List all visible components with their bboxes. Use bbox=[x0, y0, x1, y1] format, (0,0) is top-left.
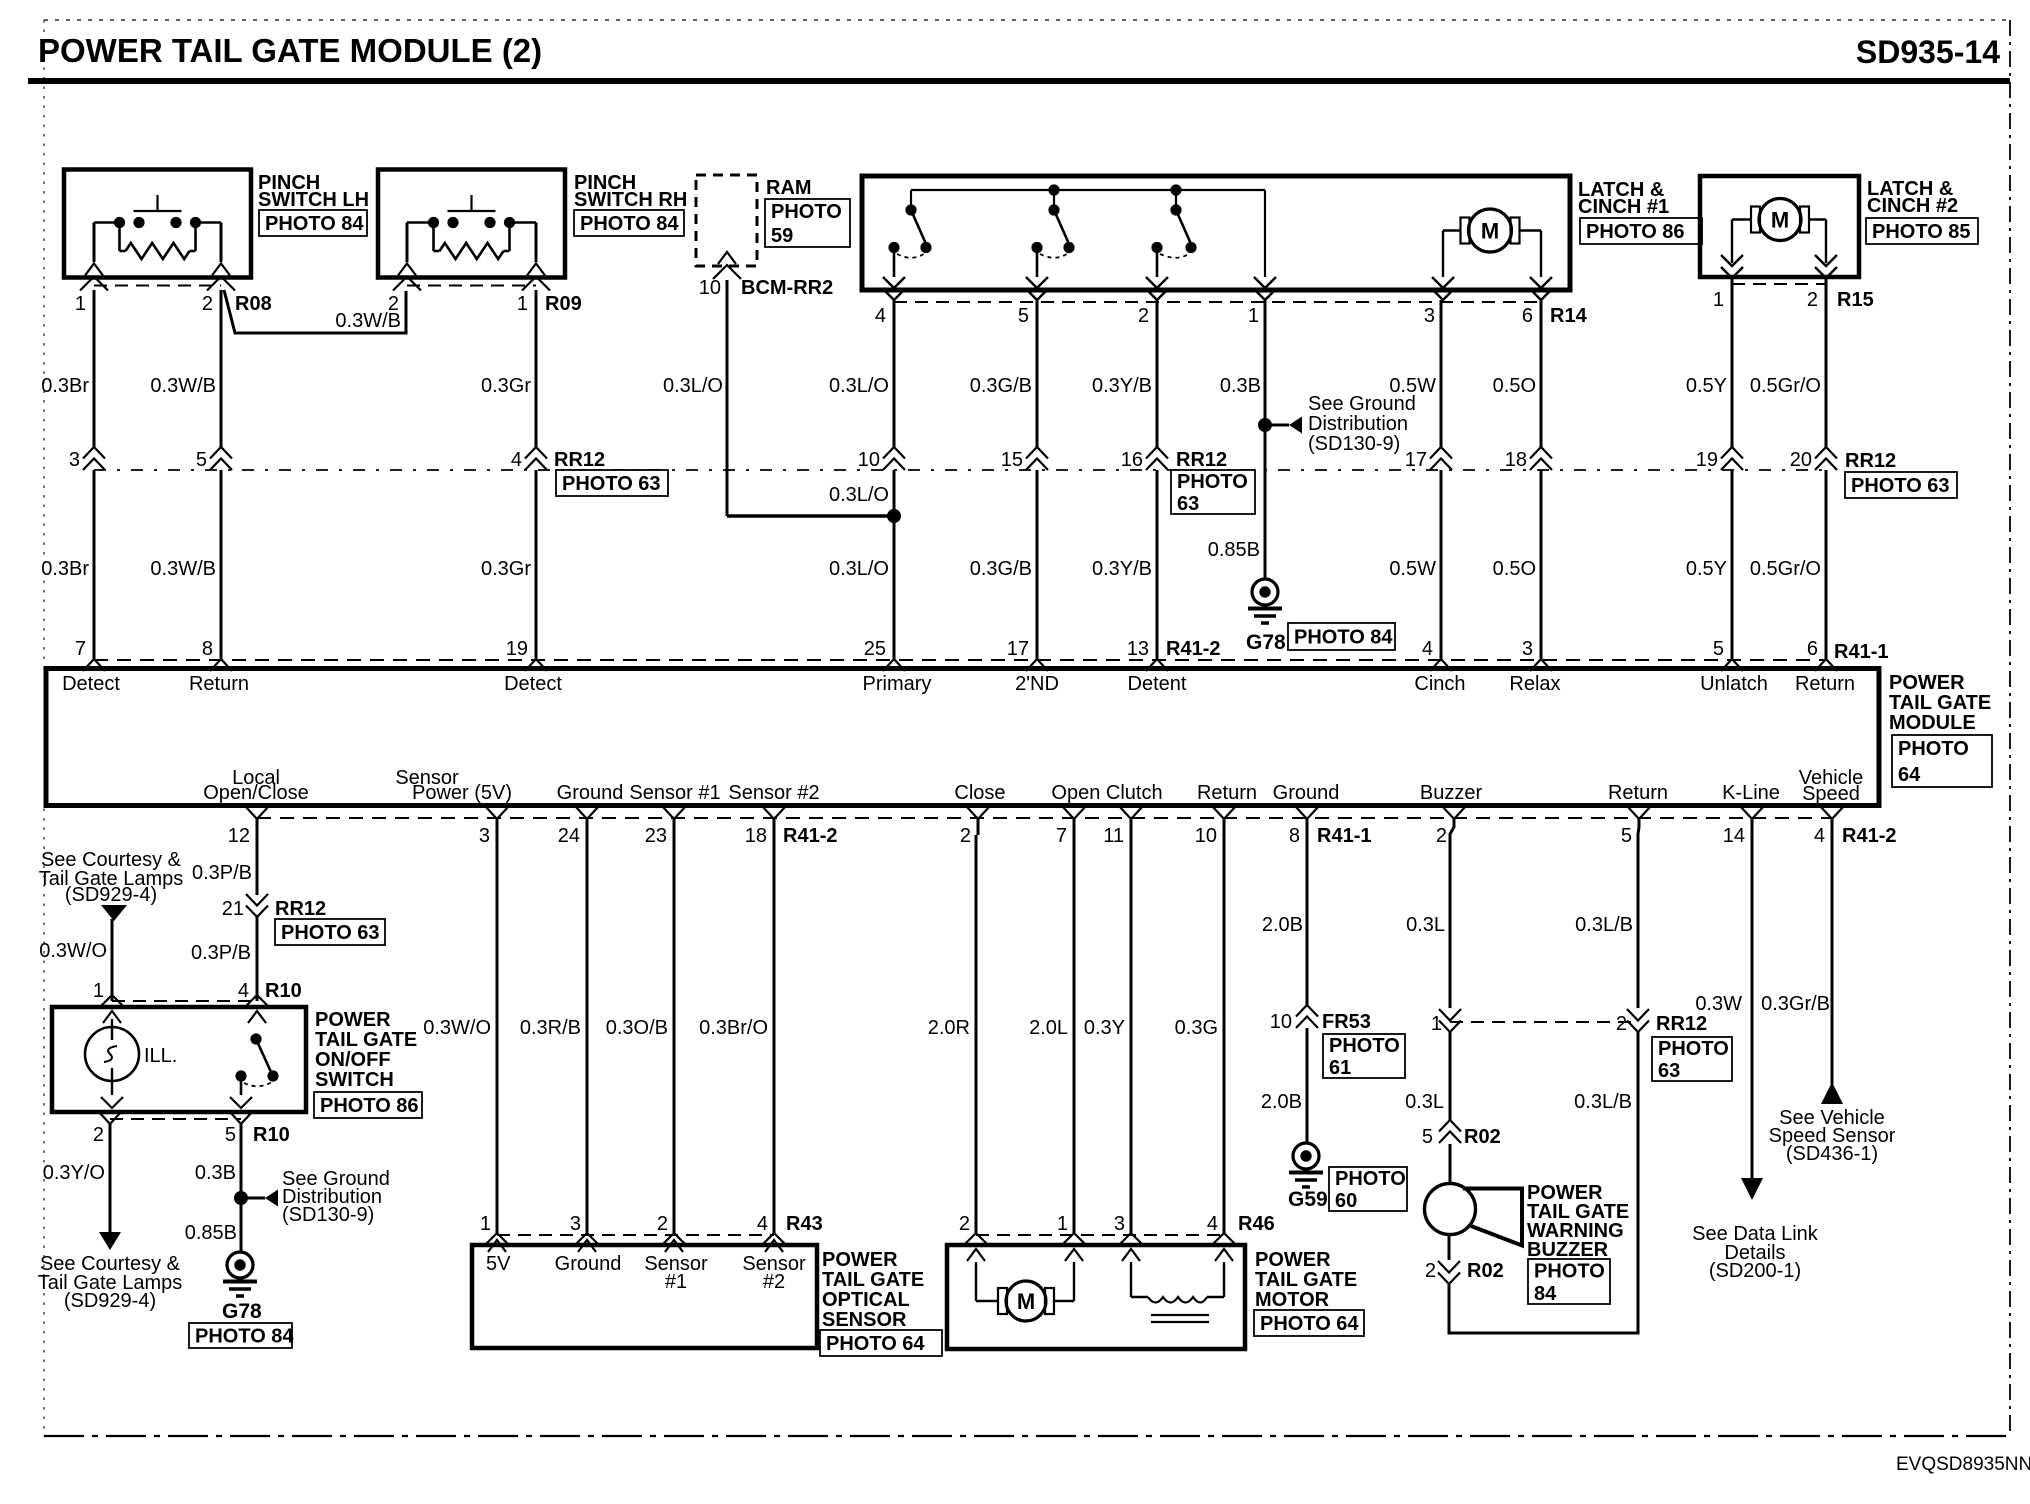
connector FR53 pin 10 chevron bbox=[1270, 1005, 1371, 1033]
svg-text:0.3O/B: 0.3O/B bbox=[606, 1017, 668, 1039]
svg-text:(SD130-9): (SD130-9) bbox=[1308, 433, 1400, 455]
svg-text:PHOTO 85: PHOTO 85 bbox=[1872, 221, 1971, 243]
latch switch (detent) bbox=[1151, 204, 1196, 277]
svg-text:20: 20 bbox=[1790, 449, 1812, 471]
latch & cinch #1 PHOTO 86 box bbox=[1580, 218, 1702, 244]
wire 0.3Y module pin 11 to tail gate motor pin 3 bbox=[1084, 819, 1144, 1261]
svg-text:60: 60 bbox=[1335, 1190, 1357, 1212]
svg-text:R46: R46 bbox=[1238, 1213, 1275, 1235]
svg-text:2.0B: 2.0B bbox=[1262, 914, 1303, 936]
svg-text:0.3Br: 0.3Br bbox=[41, 558, 89, 580]
svg-text:SWITCH LH: SWITCH LH bbox=[258, 189, 369, 211]
see ground distribution reference (top) bbox=[1258, 393, 1416, 455]
svg-text:5: 5 bbox=[1713, 638, 1724, 660]
svg-text:4: 4 bbox=[238, 980, 249, 1002]
svg-text:8: 8 bbox=[1289, 825, 1300, 847]
svg-text:(SD929-4): (SD929-4) bbox=[65, 884, 157, 906]
svg-text:64: 64 bbox=[1898, 764, 1921, 786]
svg-text:0.3L/O: 0.3L/O bbox=[829, 375, 889, 397]
svg-text:Sensor #2: Sensor #2 bbox=[728, 782, 819, 804]
svg-text:4: 4 bbox=[875, 305, 886, 327]
svg-text:FR53: FR53 bbox=[1322, 1011, 1371, 1033]
connector RR12 pin 5 chevron bbox=[196, 447, 232, 471]
svg-text:21: 21 bbox=[222, 898, 244, 920]
svg-text:3: 3 bbox=[69, 449, 80, 471]
svg-text:2.0L: 2.0L bbox=[1029, 1017, 1068, 1039]
connector R09 (pins 2,1) bbox=[388, 286, 582, 316]
on/off switch PHOTO 86 box bbox=[314, 1092, 422, 1118]
svg-text:6: 6 bbox=[1522, 305, 1533, 327]
wire 0.5Gr/O from top component to module pin 6 bbox=[1750, 277, 1826, 659]
svg-text:POWER: POWER bbox=[822, 1249, 898, 1271]
wire 0.3O/B module pin 23 to optical sensor pin 2 bbox=[606, 819, 687, 1252]
svg-text:1: 1 bbox=[1057, 1213, 1068, 1235]
svg-text:0.3L/O: 0.3L/O bbox=[829, 558, 889, 580]
svg-text:0.3B: 0.3B bbox=[1220, 375, 1261, 397]
svg-text:Detect: Detect bbox=[504, 673, 562, 695]
wire 0.5W from top component to module pin 4 bbox=[1389, 300, 1441, 659]
power tail gate on/off switch box bbox=[52, 1007, 306, 1112]
svg-text:0.5Y: 0.5Y bbox=[1686, 558, 1727, 580]
svg-text:25: 25 bbox=[864, 638, 886, 660]
svg-text:3: 3 bbox=[570, 1213, 581, 1235]
svg-text:11: 11 bbox=[1103, 825, 1124, 847]
connector RR12 label (left) bbox=[554, 449, 605, 471]
connector R02 pin 2 chevron bbox=[1425, 1260, 1504, 1284]
FR53 PHOTO 61 box bbox=[1323, 1034, 1405, 1079]
svg-text:0.3L/O: 0.3L/O bbox=[663, 375, 723, 397]
svg-text:G59: G59 bbox=[1288, 1188, 1328, 1211]
svg-text:0.3R/B: 0.3R/B bbox=[520, 1017, 581, 1039]
module pin 5 entry bbox=[1713, 638, 1743, 671]
svg-text:0.3G/B: 0.3G/B bbox=[970, 375, 1032, 397]
svg-text:PHOTO: PHOTO bbox=[1335, 1168, 1406, 1190]
svg-text:0.5O: 0.5O bbox=[1493, 558, 1536, 580]
svg-text:0.3Y/B: 0.3Y/B bbox=[1092, 558, 1152, 580]
wire 0.3G/B from top component to module pin 17 bbox=[970, 300, 1037, 659]
svg-text:PHOTO 84: PHOTO 84 bbox=[580, 213, 679, 235]
svg-text:R10: R10 bbox=[265, 980, 302, 1002]
svg-text:R10: R10 bbox=[253, 1124, 290, 1146]
svg-text:3: 3 bbox=[479, 825, 490, 847]
power tail gate module box bbox=[46, 669, 1879, 806]
svg-text:0.5W: 0.5W bbox=[1389, 558, 1436, 580]
svg-text:BUZZER: BUZZER bbox=[1527, 1239, 1609, 1261]
svg-text:PHOTO: PHOTO bbox=[1898, 738, 1969, 760]
svg-text:MODULE: MODULE bbox=[1889, 712, 1976, 734]
svg-text:2: 2 bbox=[1436, 825, 1447, 847]
see courtesy & tail gate lamps reference (top) bbox=[39, 849, 184, 921]
svg-text:PHOTO 64: PHOTO 64 bbox=[826, 1333, 925, 1355]
ground G59 bbox=[1288, 1143, 1328, 1211]
svg-text:Return: Return bbox=[1197, 782, 1257, 804]
svg-text:0.5Gr/O: 0.5Gr/O bbox=[1750, 375, 1821, 397]
module internal labels (bottom row) bbox=[203, 767, 1863, 805]
module pin 6 entry bbox=[1807, 638, 1837, 671]
svg-text:7: 7 bbox=[1056, 825, 1067, 847]
connector R02 pin 5 chevron bbox=[1422, 1120, 1501, 1148]
svg-text:63: 63 bbox=[1658, 1060, 1680, 1082]
svg-text:1: 1 bbox=[517, 293, 528, 315]
wire 0.3G module pin 10 to tail gate motor pin 4 bbox=[1175, 819, 1237, 1261]
svg-text:PHOTO 63: PHOTO 63 bbox=[562, 473, 661, 495]
svg-text:0.3Y/B: 0.3Y/B bbox=[1092, 375, 1152, 397]
connector RR12 pin 2 chevron (return) bbox=[1616, 1009, 1707, 1035]
pinch switch RH pin symbols bbox=[393, 264, 550, 291]
connector R46 dashed line and label bbox=[976, 1213, 1275, 1235]
svg-text:TAIL GATE: TAIL GATE bbox=[1255, 1269, 1357, 1291]
svg-text:PHOTO 84: PHOTO 84 bbox=[265, 213, 364, 235]
warning buzzer name label bbox=[1527, 1182, 1629, 1261]
on/off switch name label bbox=[315, 1009, 417, 1091]
svg-text:1: 1 bbox=[1431, 1013, 1442, 1035]
svg-text:1: 1 bbox=[75, 293, 86, 315]
svg-text:2: 2 bbox=[202, 293, 213, 315]
optical sensor PHOTO 64 box bbox=[820, 1330, 942, 1356]
svg-text:R41-1: R41-1 bbox=[1317, 825, 1371, 847]
svg-text:0.3Br/O: 0.3Br/O bbox=[699, 1017, 768, 1039]
svg-text:4: 4 bbox=[1814, 825, 1825, 847]
svg-text:5: 5 bbox=[1018, 305, 1029, 327]
svg-text:PHOTO: PHOTO bbox=[1534, 1260, 1605, 1282]
connector R08 (pins 1,2) bbox=[75, 286, 272, 316]
svg-text:RR12: RR12 bbox=[1176, 449, 1227, 471]
svg-text:0.3Gr/B: 0.3Gr/B bbox=[1761, 993, 1830, 1015]
module pin 8 entry bbox=[202, 638, 232, 671]
svg-text:ILL.: ILL. bbox=[144, 1045, 177, 1067]
connector R15 (pins 1,2) bbox=[1713, 284, 1874, 311]
svg-text:POWER TAIL GATE MODULE (2): POWER TAIL GATE MODULE (2) bbox=[38, 32, 542, 69]
wire 0.3Y/O to courtesy lamps bbox=[43, 1124, 121, 1250]
svg-text:13: 13 bbox=[1127, 638, 1149, 660]
latch & cinch #2 box bbox=[1700, 176, 1859, 277]
svg-text:0.5Gr/O: 0.5Gr/O bbox=[1750, 558, 1821, 580]
connector RR12 pin 21 chevron bbox=[222, 894, 326, 920]
svg-text:3: 3 bbox=[1424, 305, 1435, 327]
svg-text:0.3W/B: 0.3W/B bbox=[150, 375, 216, 397]
link wire LH pin2 to RH pin2 (0.3W/B) bbox=[224, 290, 406, 333]
svg-text:0.3Br: 0.3Br bbox=[41, 375, 89, 397]
module pin 4 entry bbox=[1422, 638, 1452, 671]
latch & cinch #1 internal bus wire bbox=[911, 184, 1265, 277]
connector pin 1 chevron (buzzer side) bbox=[1431, 1009, 1461, 1035]
connector R10 pins 2,5 bbox=[93, 1112, 290, 1146]
see data link details reference bbox=[1692, 1223, 1819, 1282]
svg-text:(SD929-4): (SD929-4) bbox=[64, 1290, 156, 1312]
svg-text:ON/OFF: ON/OFF bbox=[315, 1049, 391, 1071]
pinch switch LH PHOTO 84 box bbox=[259, 210, 367, 236]
svg-text:84: 84 bbox=[1534, 1283, 1557, 1305]
svg-text:R41-2: R41-2 bbox=[783, 825, 837, 847]
svg-text:0.3G/B: 0.3G/B bbox=[970, 558, 1032, 580]
svg-text:PHOTO: PHOTO bbox=[1329, 1035, 1400, 1057]
svg-text:MOTOR: MOTOR bbox=[1255, 1289, 1330, 1311]
wire 0.3Y/B from top component to module pin 13 bbox=[1092, 300, 1157, 659]
svg-text:R41-2: R41-2 bbox=[1166, 638, 1220, 660]
svg-text:R43: R43 bbox=[786, 1213, 823, 1235]
svg-text:1: 1 bbox=[93, 980, 104, 1002]
svg-text:Return: Return bbox=[1608, 782, 1668, 804]
RR12 PHOTO 63 box (pin 21) bbox=[275, 919, 385, 945]
svg-text:59: 59 bbox=[771, 225, 793, 247]
svg-text:6: 6 bbox=[1807, 638, 1818, 660]
svg-text:Buzzer: Buzzer bbox=[1420, 782, 1483, 804]
module pin 25 entry bbox=[864, 638, 905, 671]
svg-text:Distribution: Distribution bbox=[1308, 413, 1408, 435]
module name label POWER TAIL GATE MODULE bbox=[1889, 672, 1991, 734]
svg-text:3: 3 bbox=[1114, 1213, 1125, 1235]
svg-text:0.3W/O: 0.3W/O bbox=[423, 1017, 491, 1039]
svg-text:M: M bbox=[1481, 219, 1499, 244]
wire 0.3W/B from top component to module pin 8 bbox=[150, 290, 221, 659]
svg-text:R41-1: R41-1 bbox=[1834, 641, 1888, 663]
wire 0.3L/O segment below junction (label) bbox=[829, 484, 889, 580]
svg-text:19: 19 bbox=[506, 638, 528, 660]
connector RR12 pin 16 chevron bbox=[1121, 447, 1168, 471]
wire 0.3Gr from top component to module pin 19 bbox=[481, 290, 536, 659]
svg-text:1: 1 bbox=[1713, 289, 1724, 311]
sheet number SD935-14 bbox=[1856, 34, 2000, 70]
module connector labels R41-2 / R41-1 (top row) bbox=[1166, 638, 1888, 663]
svg-text:RR12: RR12 bbox=[1656, 1013, 1707, 1035]
module pin 19 entry bbox=[506, 638, 547, 671]
ground G78 (bottom) bbox=[222, 1252, 262, 1323]
svg-text:0.3B: 0.3B bbox=[195, 1162, 236, 1184]
RAM PHOTO 59 box bbox=[765, 199, 850, 247]
svg-text:TAIL GATE: TAIL GATE bbox=[315, 1029, 417, 1051]
title separator rule bbox=[28, 78, 2010, 84]
connector RR12 label (right) bbox=[1845, 450, 1896, 472]
tail gate motor PHOTO 64 box bbox=[1254, 1310, 1364, 1336]
latch & cinch #2 PHOTO 85 box bbox=[1866, 218, 1978, 244]
svg-text:Unlatch: Unlatch bbox=[1700, 673, 1768, 695]
wire 0.3W module pin 14 K-line bbox=[1695, 819, 1763, 1200]
wire 2.0R module pin 2 to tail gate motor pin 2 bbox=[928, 819, 989, 1261]
latch & cinch #1 motor M bbox=[1443, 209, 1541, 277]
svg-text:2.0B: 2.0B bbox=[1261, 1091, 1302, 1113]
svg-text:Sensor #1: Sensor #1 bbox=[629, 782, 720, 804]
svg-text:0.3Gr: 0.3Gr bbox=[481, 558, 531, 580]
pinch switch LH pin symbols bbox=[80, 264, 235, 291]
connector RR12 label (middle) bbox=[1176, 449, 1227, 471]
svg-text:61: 61 bbox=[1329, 1057, 1351, 1079]
svg-text:#1: #1 bbox=[665, 1271, 687, 1293]
svg-text:18: 18 bbox=[1505, 449, 1527, 471]
svg-text:10: 10 bbox=[1195, 825, 1217, 847]
RAM pin 10 BCM-RR2 bbox=[699, 252, 833, 299]
on/off switch contacts bbox=[230, 1033, 279, 1108]
buzzer return loop wire bbox=[1449, 1032, 1638, 1333]
svg-text:23: 23 bbox=[645, 825, 667, 847]
connector R43 dashed line and label bbox=[497, 1213, 823, 1235]
power tail gate optical sensor box bbox=[472, 1245, 817, 1348]
svg-text:4: 4 bbox=[511, 449, 522, 471]
power tail gate motor box bbox=[947, 1245, 1245, 1349]
svg-text:5: 5 bbox=[225, 1124, 236, 1146]
svg-text:16: 16 bbox=[1121, 449, 1143, 471]
svg-text:PHOTO: PHOTO bbox=[771, 201, 842, 223]
svg-text:TAIL GATE: TAIL GATE bbox=[822, 1269, 924, 1291]
svg-text:POWER: POWER bbox=[1255, 1249, 1331, 1271]
svg-text:R09: R09 bbox=[545, 293, 582, 315]
latch switch (primary) bbox=[888, 204, 931, 277]
wire 0.3L/O from top component to module pin 25 bbox=[829, 300, 894, 659]
G59 PHOTO 60 box bbox=[1329, 1167, 1407, 1212]
svg-text:5V: 5V bbox=[486, 1253, 511, 1275]
svg-text:19: 19 bbox=[1696, 449, 1718, 471]
wire 2.0B module pin 8 to ground G59 bbox=[1261, 819, 1307, 1143]
svg-text:5: 5 bbox=[1422, 1126, 1433, 1148]
svg-text:2'ND: 2'ND bbox=[1015, 673, 1059, 695]
optical sensor name label bbox=[822, 1249, 924, 1331]
connector RR12 pin 15 chevron bbox=[1001, 447, 1048, 471]
svg-text:CINCH #2: CINCH #2 bbox=[1867, 195, 1958, 217]
svg-text:SWITCH: SWITCH bbox=[315, 1069, 394, 1091]
svg-text:2: 2 bbox=[1425, 1260, 1436, 1282]
module pin 13 entry bbox=[1127, 638, 1168, 671]
svg-text:2: 2 bbox=[1807, 289, 1818, 311]
svg-text:0.3G: 0.3G bbox=[1175, 1017, 1218, 1039]
svg-text:PHOTO: PHOTO bbox=[1177, 471, 1248, 493]
svg-text:(SD200-1): (SD200-1) bbox=[1709, 1260, 1801, 1282]
connector RR12 pin 18 chevron bbox=[1505, 447, 1552, 471]
svg-text:PHOTO 64: PHOTO 64 bbox=[1260, 1313, 1359, 1335]
svg-text:Relax: Relax bbox=[1509, 673, 1560, 695]
svg-text:Detent: Detent bbox=[1128, 673, 1187, 695]
tail gate motor M symbol bbox=[976, 1262, 1074, 1321]
module internal labels (top row) bbox=[62, 673, 1855, 695]
pinch switch LH push-button and resistor symbol bbox=[94, 195, 221, 262]
svg-text:PHOTO: PHOTO bbox=[1658, 1038, 1729, 1060]
svg-text:R14: R14 bbox=[1550, 305, 1588, 327]
svg-text:8: 8 bbox=[202, 638, 213, 660]
connector RR12 pin 10 chevron bbox=[858, 447, 905, 471]
module pin dashed line (bottom row) bbox=[257, 817, 1832, 819]
svg-text:CINCH #1: CINCH #1 bbox=[1578, 196, 1669, 218]
svg-text:Open Clutch: Open Clutch bbox=[1051, 782, 1162, 804]
connector R10 pin 4 bbox=[112, 980, 302, 1023]
svg-text:Power (5V): Power (5V) bbox=[412, 782, 512, 804]
G78 PHOTO 84 box (bottom) bbox=[189, 1323, 294, 1348]
svg-text:SENSOR: SENSOR bbox=[822, 1309, 907, 1331]
latch & cinch #1 pin arrows bbox=[883, 277, 1552, 300]
pinch switch LH name label bbox=[258, 172, 369, 211]
svg-text:OPTICAL: OPTICAL bbox=[822, 1289, 910, 1311]
svg-text:0.3P/B: 0.3P/B bbox=[191, 942, 251, 964]
svg-text:RAM: RAM bbox=[766, 177, 812, 199]
svg-text:Close: Close bbox=[954, 782, 1005, 804]
pinch switch RH name label bbox=[574, 172, 687, 211]
svg-text:PHOTO 84: PHOTO 84 bbox=[195, 1326, 294, 1348]
wire 0.5Y from top component to module pin 5 bbox=[1686, 277, 1732, 659]
svg-text:Ground: Ground bbox=[555, 1253, 622, 1275]
wire 0.3R/B module pin 24 to optical sensor pin 3 bbox=[520, 819, 600, 1252]
svg-text:2: 2 bbox=[959, 1213, 970, 1235]
svg-text:R41-2: R41-2 bbox=[1842, 825, 1896, 847]
svg-text:0.3W/B: 0.3W/B bbox=[150, 558, 216, 580]
svg-text:Return: Return bbox=[189, 673, 249, 695]
pinch switch LH box bbox=[64, 170, 251, 278]
in-line connector RR12 row dash line bbox=[94, 469, 1826, 471]
latch switch (2nd) bbox=[1031, 204, 1074, 277]
svg-text:10: 10 bbox=[858, 449, 880, 471]
svg-text:G78: G78 bbox=[222, 1300, 262, 1323]
power tail gate warning buzzer symbol bbox=[1425, 1184, 1523, 1246]
svg-text:EVQSD8935NN: EVQSD8935NN bbox=[1896, 1454, 2030, 1475]
svg-text:0.3L: 0.3L bbox=[1405, 1091, 1444, 1113]
svg-text:17: 17 bbox=[1405, 449, 1427, 471]
illumination lamp ILL bbox=[85, 1019, 177, 1108]
svg-text:SWITCH RH: SWITCH RH bbox=[574, 189, 687, 211]
latch & cinch #2 name label bbox=[1867, 178, 1958, 217]
svg-text:0.3L/O: 0.3L/O bbox=[829, 484, 889, 506]
svg-text:K-Line: K-Line bbox=[1722, 782, 1780, 804]
svg-text:PHOTO 63: PHOTO 63 bbox=[281, 922, 380, 944]
tail gate motor name label bbox=[1255, 1249, 1357, 1311]
svg-text:(SD130-9): (SD130-9) bbox=[282, 1204, 374, 1226]
module bottom pin exits and numbers bbox=[228, 807, 1897, 847]
svg-text:SD935-14: SD935-14 bbox=[1856, 34, 2000, 70]
see ground distribution reference (bottom) bbox=[234, 1168, 390, 1226]
svg-text:RR12: RR12 bbox=[554, 449, 605, 471]
pinch switch RH push-button and resistor symbol bbox=[407, 195, 536, 262]
svg-text:R02: R02 bbox=[1464, 1126, 1501, 1148]
svg-text:TAIL GATE: TAIL GATE bbox=[1889, 692, 1991, 714]
svg-text:0.3Y/O: 0.3Y/O bbox=[43, 1162, 105, 1184]
svg-text:4: 4 bbox=[1207, 1213, 1218, 1235]
wire 0.3B latch pin1 to ground G78 bbox=[1208, 300, 1265, 579]
svg-text:PHOTO 63: PHOTO 63 bbox=[1851, 475, 1950, 497]
connector RR12 pin 19 chevron bbox=[1696, 447, 1743, 471]
RR12 PHOTO 63 box (return) bbox=[1652, 1037, 1732, 1082]
svg-text:5: 5 bbox=[1621, 825, 1632, 847]
wire 0.3B / 0.85B to ground G78 bbox=[185, 1124, 241, 1253]
svg-text:PHOTO 86: PHOTO 86 bbox=[320, 1095, 419, 1117]
svg-text:0.3W: 0.3W bbox=[1695, 993, 1742, 1015]
svg-text:0.3W/B: 0.3W/B bbox=[335, 310, 401, 332]
wire 0.3P/B module pin12 to switch pin 4 bbox=[191, 819, 257, 1001]
see courtesy & tail gate lamps reference (bottom) bbox=[38, 1253, 183, 1312]
svg-text:0.85B: 0.85B bbox=[185, 1222, 237, 1244]
tail gate motor clutch coil bbox=[1131, 1262, 1224, 1322]
svg-text:0.3W/O: 0.3W/O bbox=[39, 940, 107, 962]
svg-text:2: 2 bbox=[657, 1213, 668, 1235]
svg-text:M: M bbox=[1017, 1289, 1035, 1314]
svg-text:0.3Gr: 0.3Gr bbox=[481, 375, 531, 397]
svg-text:(SD436-1): (SD436-1) bbox=[1786, 1143, 1878, 1165]
wire 0.3W/O module pin 3 to optical sensor pin 1 bbox=[423, 819, 510, 1252]
svg-text:3: 3 bbox=[1522, 638, 1533, 660]
svg-text:0.3L/B: 0.3L/B bbox=[1574, 1091, 1632, 1113]
module pin 17 entry bbox=[1007, 638, 1048, 671]
junction node on primary wire bbox=[887, 509, 901, 523]
BCM-RR2 wire 0.3L/O down and right to junction bbox=[663, 280, 894, 516]
svg-text:RR12: RR12 bbox=[275, 898, 326, 920]
svg-text:0.3L: 0.3L bbox=[1406, 914, 1445, 936]
wire 0.3W/O to switch pin 1 bbox=[39, 919, 125, 1023]
title: POWER TAIL GATE MODULE (2) bbox=[38, 32, 542, 69]
connector RR12 pin 20 chevron bbox=[1790, 447, 1837, 471]
wire 2.0L module pin 7 to tail gate motor pin 1 bbox=[1029, 819, 1087, 1261]
svg-text:PHOTO 84: PHOTO 84 bbox=[1294, 627, 1393, 649]
svg-text:R15: R15 bbox=[1837, 289, 1874, 311]
svg-text:Open/Close: Open/Close bbox=[203, 782, 309, 804]
svg-text:2: 2 bbox=[960, 825, 971, 847]
svg-text:0.85B: 0.85B bbox=[1208, 539, 1260, 561]
svg-text:0.3L/B: 0.3L/B bbox=[1575, 914, 1633, 936]
pinch switch RH PHOTO 84 box bbox=[574, 210, 684, 236]
svg-text:63: 63 bbox=[1177, 493, 1199, 515]
